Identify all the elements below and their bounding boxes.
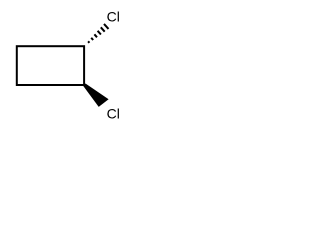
svg-text:Cl: Cl [107, 105, 120, 121]
solid wedge bond to bottom Cl [83, 84, 108, 107]
svg-text:Cl: Cl [107, 8, 120, 24]
cyclobutane ring [17, 46, 84, 85]
hashed wedge bond to top Cl [88, 24, 108, 43]
